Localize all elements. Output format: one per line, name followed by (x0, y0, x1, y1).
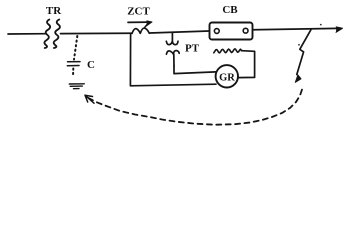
wire: bus TR to ZCT (61, 32, 133, 34)
ZCT winding on line (132, 28, 149, 33)
transformer TR (two windings) (44, 20, 50, 49)
capacitor C plates (68, 61, 81, 63)
circuit breaker CB box (210, 23, 253, 40)
coil (CB trip coil) (214, 49, 242, 53)
fault bolt at line (297, 30, 311, 75)
wire: GR output loop right side (238, 51, 255, 78)
wire: bus CB to line end arrow (253, 28, 338, 29)
wire: left feeder segment (8, 33, 46, 35)
PT secondary winding (166, 51, 179, 55)
ground (69, 83, 84, 85)
wire: ZCT secondary down and right to GR (130, 34, 216, 86)
svg-text:C: C (87, 59, 95, 71)
CB right contact (243, 28, 248, 33)
wire: dotted below capacitor (72, 69, 74, 77)
earth return dashed path (89, 89, 303, 125)
speck near line arrow (320, 24, 322, 26)
arrow above ZCT (128, 21, 150, 23)
speck near fault bolt (298, 44, 300, 46)
svg-text:PT: PT (185, 43, 200, 55)
PT primary winding (171, 33, 173, 42)
svg-text:GR: GR (219, 72, 235, 83)
svg-text:ZCT: ZCT (127, 6, 150, 18)
arrowhead of earth return path (85, 95, 94, 103)
wire: bus ZCT to CB (150, 31, 209, 33)
relay GR (216, 65, 238, 87)
svg-text:CB: CB (222, 4, 238, 16)
CB left contact (214, 29, 219, 34)
wire: PT secondary to GR (174, 66, 216, 74)
svg-text:TR: TR (46, 5, 62, 17)
capacitor C dotted tap from bus (74, 36, 77, 60)
